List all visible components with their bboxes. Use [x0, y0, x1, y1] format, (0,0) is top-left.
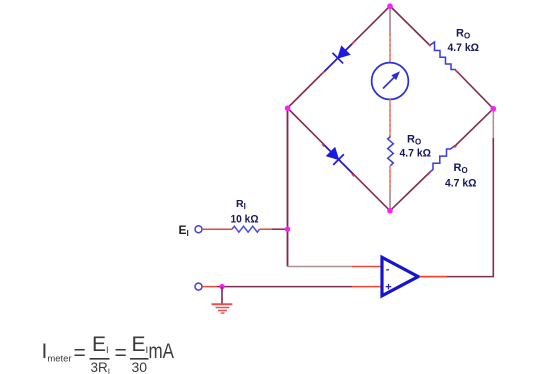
node L — [285, 105, 291, 111]
resistor RI — [232, 226, 260, 232]
wire input pin left — [203, 228, 233, 230]
terminal EI — [195, 226, 202, 233]
pin dot — [428, 173, 430, 175]
pin output — [420, 276, 448, 278]
resistor RO1 (top-right staircase) — [430, 42, 456, 70]
node T — [387, 3, 393, 9]
wire output to right vertical — [447, 276, 494, 278]
svg-text:-: - — [386, 263, 390, 275]
wire left vertical (L down to inverting row) — [287, 108, 289, 267]
svg-text:EI: EI — [92, 333, 109, 356]
svg-text:RO: RO — [456, 27, 470, 40]
node junction J1 — [285, 227, 290, 232]
svg-text:3RI: 3RI — [91, 359, 111, 374]
svg-text:4.7 kΩ: 4.7 kΩ — [445, 177, 477, 189]
svg-text:mA: mA — [149, 340, 175, 363]
wire right vertical (R down to output row) — [492, 138, 494, 277]
pin dot — [429, 44, 431, 46]
formula I_meter — [42, 333, 175, 374]
pin inverting — [352, 266, 381, 268]
wire middle vertical top segment — [389, 6, 391, 34]
ground — [212, 304, 233, 313]
wire bridge edge top-right (T to R) — [390, 6, 431, 46]
pin noninverting — [352, 286, 381, 288]
svg-text:Imeter: Imeter — [42, 340, 72, 365]
wire bridge edge bottom-left (L to B) — [288, 108, 391, 211]
svg-text:RO: RO — [407, 133, 421, 146]
pin dot — [352, 42, 354, 44]
svg-text:RI: RI — [236, 198, 246, 211]
svg-text:=: = — [74, 342, 86, 365]
svg-text:4.7 kΩ: 4.7 kΩ — [448, 42, 480, 54]
node R — [491, 106, 497, 112]
svg-text:10 kΩ: 10 kΩ — [231, 213, 259, 225]
terminal ground input — [195, 283, 202, 290]
pin dot — [454, 145, 456, 147]
svg-text:30: 30 — [132, 359, 148, 374]
wire middle vertical salmon lower — [389, 166, 391, 190]
wire inverting input — [288, 266, 353, 268]
diode D1 — [318, 38, 358, 78]
wire terminal to junction — [203, 286, 218, 288]
wire right vertical upper (light) — [492, 109, 494, 138]
wire to junction — [272, 228, 288, 230]
wire input pin right — [260, 228, 273, 230]
pin dot — [455, 70, 457, 72]
node B — [387, 208, 393, 214]
wire ground stem — [221, 287, 223, 304]
svg-text:=: = — [115, 342, 127, 365]
pin dot — [322, 144, 324, 146]
wire bridge edge top-left (T to L) — [288, 6, 391, 108]
resistor RO2 (middle vertical zigzag) — [388, 137, 394, 166]
fraction bar 1 — [90, 358, 110, 360]
svg-text:+: + — [385, 281, 391, 293]
diode D2 — [318, 139, 358, 179]
svg-text:RO: RO — [454, 162, 468, 175]
meter M1 — [372, 63, 409, 100]
wire middle vertical salmon upper — [389, 34, 391, 63]
node junction J2 — [219, 284, 224, 289]
op-amp U1 — [382, 257, 418, 296]
fraction bar 2 — [130, 358, 149, 360]
wire bridge edge bottom-right (B to R) — [390, 172, 430, 211]
wire noninverting input — [217, 286, 352, 288]
svg-text:EI: EI — [179, 223, 189, 238]
resistor RO3 (bottom-right staircase) — [429, 146, 455, 173]
svg-text:EI: EI — [132, 333, 149, 356]
pin dot — [322, 72, 324, 74]
pin dot — [352, 174, 354, 176]
wire middle vertical bottom segment — [389, 189, 391, 211]
svg-text:4.7 kΩ: 4.7 kΩ — [400, 147, 432, 159]
wire middle vertical salmon mid — [389, 99, 391, 136]
